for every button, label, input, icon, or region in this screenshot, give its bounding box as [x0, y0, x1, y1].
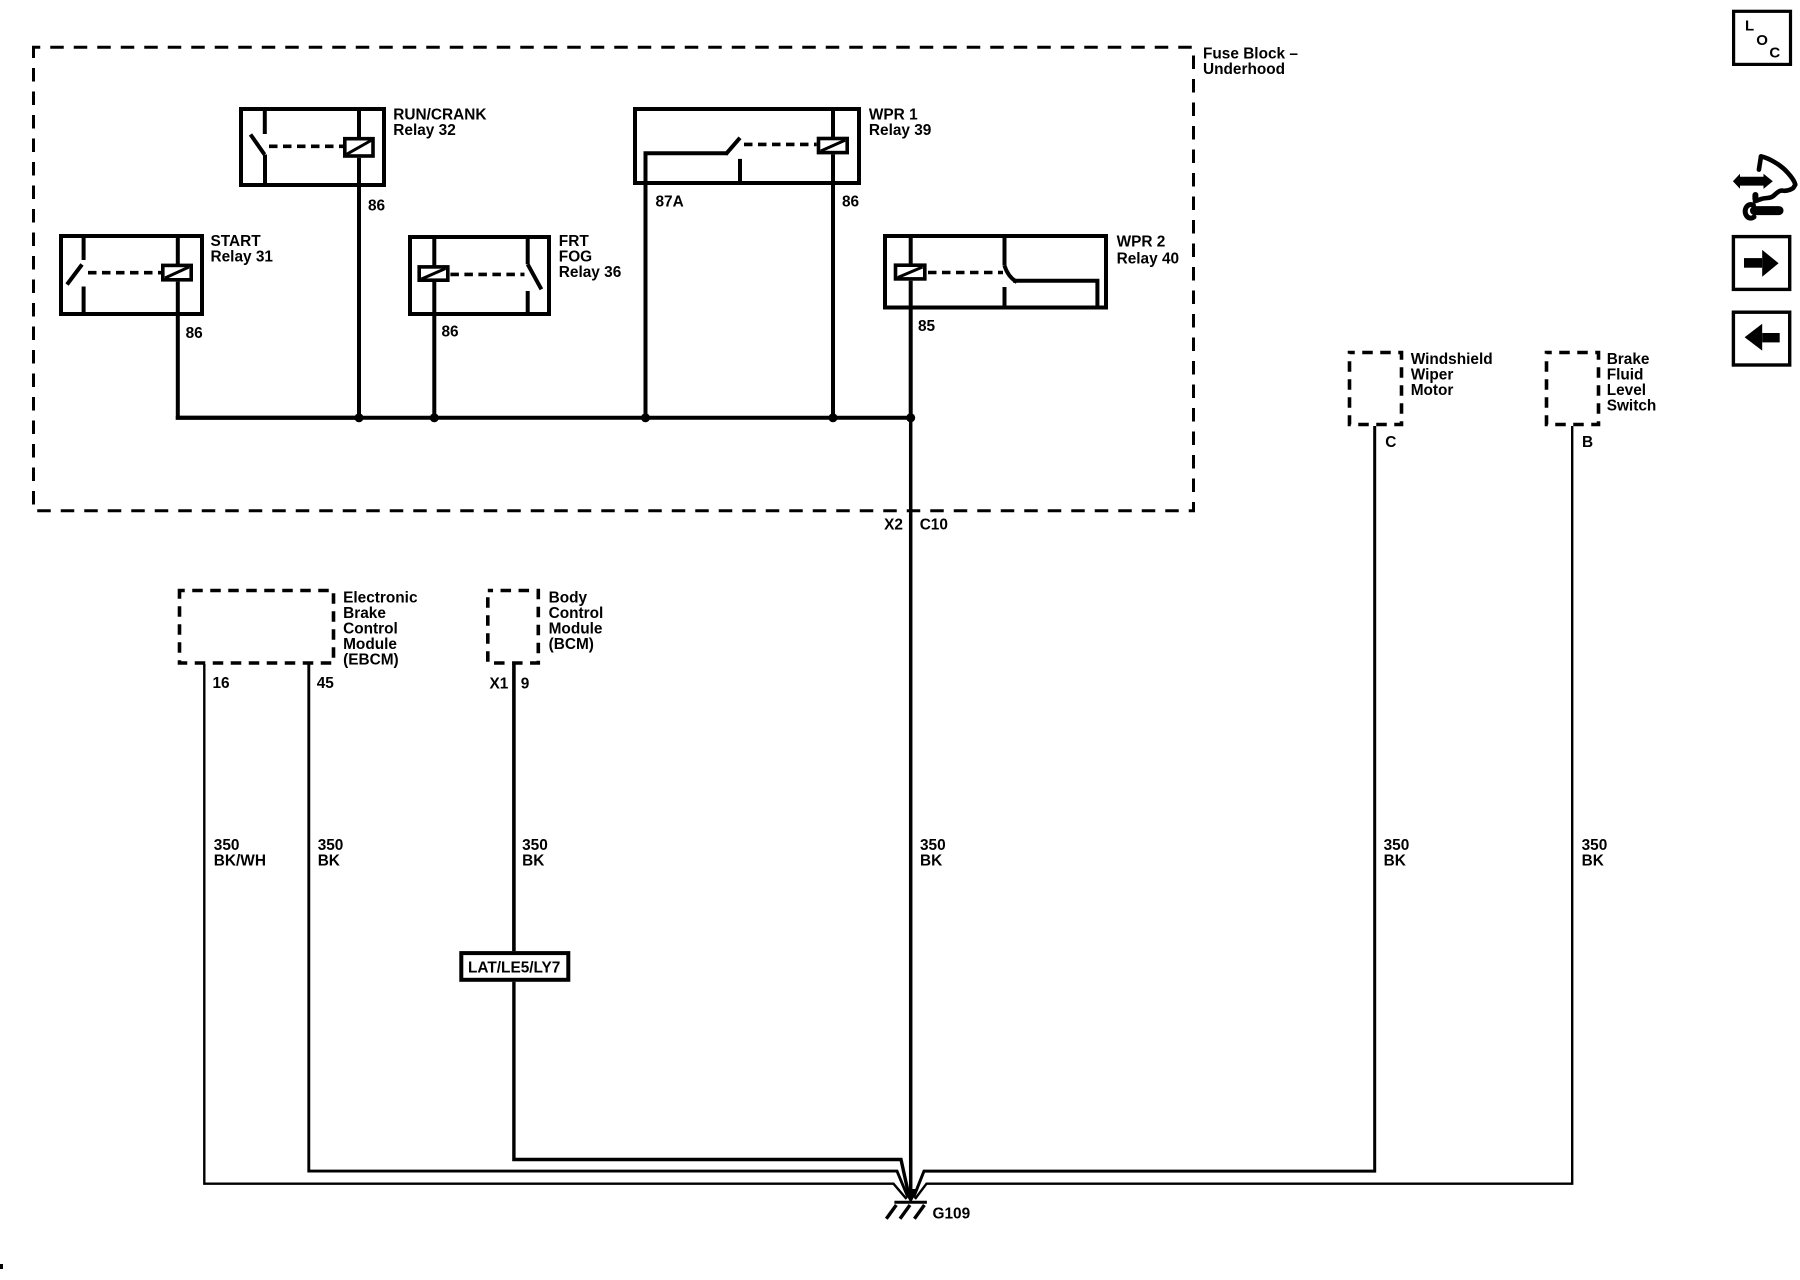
EBCM pin 45 label	[317, 675, 335, 692]
svg-text:Module: Module	[549, 621, 603, 638]
wire relay40 pin85 down	[909, 307, 913, 418]
svg-text:86: 86	[842, 194, 859, 211]
junction bus/main ground wire	[906, 413, 915, 422]
svg-text:Underhood: Underhood	[1203, 61, 1285, 78]
ground bus inside fuse block	[176, 416, 911, 420]
relay 36 label	[559, 233, 621, 281]
relay 39 switch with 87A leg	[644, 138, 741, 183]
junction relay39 87A/bus	[641, 413, 650, 422]
fuse block underhood dashed box	[34, 47, 1194, 511]
wire main ground lead 350 BK	[909, 418, 913, 1197]
relay 32 coil	[345, 107, 373, 187]
svg-text:X1: X1	[489, 676, 508, 693]
svg-text:BK: BK	[920, 853, 942, 870]
svg-text:Relay 39: Relay 39	[869, 122, 931, 139]
svg-text:45: 45	[317, 675, 335, 692]
svg-text:BK: BK	[522, 853, 544, 870]
engine option box LAT/LE5/LY7	[461, 953, 568, 980]
svg-text:START: START	[211, 233, 262, 250]
svg-text:Control: Control	[343, 621, 398, 638]
wire EBCM pin45 350 BK	[309, 664, 908, 1198]
svg-text:FOG: FOG	[559, 249, 592, 266]
svg-text:Motor: Motor	[1411, 382, 1454, 399]
svg-text:350: 350	[1582, 837, 1608, 854]
svg-text:350: 350	[1384, 837, 1410, 854]
ground label G109	[933, 1206, 971, 1223]
svg-text:X2: X2	[884, 517, 903, 534]
svg-text:Brake: Brake	[343, 605, 386, 622]
svg-text:BK: BK	[1384, 853, 1406, 870]
stray mark bottom left	[0, 1264, 3, 1269]
junction relay36/bus	[430, 413, 439, 422]
relay 40 WPR 2 box	[885, 236, 1106, 308]
svg-text:86: 86	[368, 198, 385, 215]
svg-text:BK: BK	[1582, 853, 1604, 870]
svg-text:BK/WH: BK/WH	[214, 853, 266, 870]
relay 31 coil	[163, 234, 191, 316]
relay 32 RUN/CRANK box	[241, 109, 384, 185]
connector C10 label	[920, 517, 948, 534]
svg-text:Fuse Block –: Fuse Block –	[1203, 46, 1298, 63]
wiper motor pin C label	[1385, 434, 1396, 451]
svg-text:B: B	[1582, 434, 1593, 451]
svg-text:RUN/CRANK: RUN/CRANK	[393, 107, 486, 124]
svg-text:Relay 32: Relay 32	[393, 122, 455, 139]
junction relay32/bus	[355, 413, 364, 422]
svg-text:C: C	[1769, 44, 1780, 61]
wire label 350 BK main	[920, 837, 946, 870]
svg-text:9: 9	[521, 676, 530, 693]
brake fluid switch pin B label	[1582, 434, 1593, 451]
relay 31 label	[211, 233, 274, 266]
svg-text:Electronic: Electronic	[343, 590, 418, 607]
wire relay31 pin86 to bus	[178, 314, 359, 418]
wire BCM pin9 350 BK upper	[512, 664, 516, 951]
wire wiper motor 350 BK	[914, 426, 1375, 1198]
svg-text:350: 350	[920, 837, 946, 854]
LOC reference box	[1734, 11, 1791, 64]
BCM dashed box	[488, 591, 539, 664]
relay 39 coil link dashed	[744, 143, 817, 147]
relay 31 coil link dashed	[88, 271, 161, 275]
svg-text:G109: G109	[933, 1206, 971, 1223]
wire brake fluid switch 350 BK	[915, 426, 1572, 1199]
relay 36 switch	[528, 235, 542, 316]
svg-text:BK: BK	[318, 853, 340, 870]
BCM pin 9 label	[521, 676, 530, 693]
svg-text:WPR 2: WPR 2	[1117, 234, 1166, 251]
EBCM pin 16 label	[213, 675, 230, 692]
relay 39 WPR 1 box	[635, 109, 859, 183]
forward arrow box	[1733, 237, 1789, 290]
svg-text:LAT/LE5/LY7: LAT/LE5/LY7	[468, 959, 560, 976]
fuse block label	[1203, 46, 1298, 79]
relay 39 pin 87A label	[656, 194, 684, 211]
svg-text:350: 350	[522, 837, 548, 854]
BCM label	[549, 590, 604, 654]
relay 36 pin 86 label	[442, 324, 459, 341]
relay 32 label	[393, 107, 486, 140]
svg-text:Control: Control	[549, 605, 604, 622]
relay 39 coil	[819, 107, 848, 187]
BCM pin X1 label	[489, 676, 508, 693]
windshield wiper motor dashed box	[1350, 353, 1402, 425]
svg-text:85: 85	[918, 318, 936, 335]
wire BCM pin9 350 BK lower	[514, 982, 909, 1196]
junction relay39 86/bus	[829, 413, 838, 422]
relay 39 label	[869, 107, 931, 140]
svg-text:87A: 87A	[656, 194, 684, 211]
svg-text:86: 86	[186, 325, 203, 342]
wire relay32 pin86 to bus	[357, 185, 361, 418]
brake fluid level switch dashed box	[1547, 353, 1599, 425]
relay 31 switch	[67, 234, 84, 316]
relay 32 switch	[251, 107, 266, 187]
relay 40 label	[1117, 234, 1179, 268]
svg-text:Relay 40: Relay 40	[1117, 251, 1179, 268]
svg-text:L: L	[1745, 18, 1754, 35]
windshield wiper motor label	[1411, 351, 1493, 399]
EBCM label	[343, 590, 418, 669]
svg-text:Relay 31: Relay 31	[211, 249, 274, 266]
svg-text:WPR 1: WPR 1	[869, 107, 918, 124]
wire relay39 pin87A to bus	[644, 183, 648, 418]
wire label 350 BK/WH pin16	[214, 837, 266, 870]
relay 40 coil	[896, 234, 925, 309]
svg-text:FRT: FRT	[559, 233, 590, 250]
relay 31 pin 86 label	[186, 325, 203, 342]
svg-text:C: C	[1385, 434, 1396, 451]
svg-text:350: 350	[214, 837, 240, 854]
relay 39 pin 86 label	[842, 194, 859, 211]
wire label 350 BK BCM	[522, 837, 548, 870]
wire label 350 BK pin45	[318, 837, 344, 870]
ground symbol G109	[886, 1202, 927, 1219]
harness routing scribble icon	[1733, 156, 1795, 218]
backward arrow box	[1733, 312, 1789, 365]
relay 32 coil link dashed	[269, 145, 343, 149]
wire relay36 pin86 to bus	[432, 314, 436, 418]
wire label 350 BK wiper	[1384, 837, 1410, 870]
relay 40 coil link dashed	[928, 271, 1003, 275]
relay 36 coil link dashed	[450, 273, 524, 277]
relay 31 START box	[61, 236, 202, 314]
svg-text:C10: C10	[920, 517, 948, 534]
brake fluid level switch label	[1607, 351, 1657, 414]
svg-text:Relay 36: Relay 36	[559, 264, 621, 281]
ground arrowhead at G109	[903, 1189, 919, 1203]
relay 32 pin 86 label	[368, 198, 385, 215]
wire relay39 pin86 to bus	[831, 183, 835, 418]
svg-text:Body: Body	[549, 590, 588, 607]
svg-text:86: 86	[442, 324, 459, 341]
svg-text:350: 350	[318, 837, 344, 854]
wire label 350 BK brake fluid	[1582, 837, 1608, 870]
svg-text:(BCM): (BCM)	[549, 636, 594, 653]
svg-text:Switch: Switch	[1607, 397, 1657, 414]
relay 40 switch	[1005, 234, 1098, 309]
connector X2 label	[884, 517, 903, 534]
relay 40 pin 85 label	[918, 318, 936, 335]
EBCM dashed box	[180, 591, 334, 664]
svg-text:Module: Module	[343, 636, 397, 653]
wire EBCM pin16 350 BK/WH	[204, 664, 906, 1199]
relay 36 coil	[419, 235, 448, 316]
svg-text:O: O	[1756, 32, 1768, 49]
relay 36 FRT FOG box	[410, 237, 549, 314]
svg-text:(EBCM): (EBCM)	[343, 652, 399, 669]
svg-text:16: 16	[213, 675, 230, 692]
